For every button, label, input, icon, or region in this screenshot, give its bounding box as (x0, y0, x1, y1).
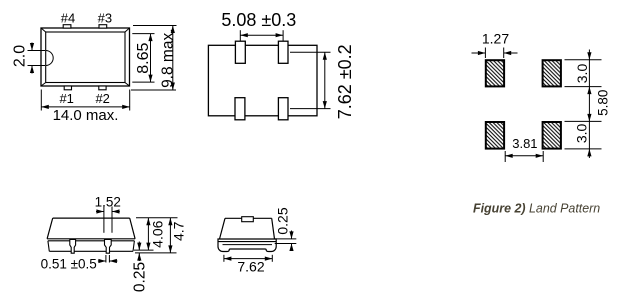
pad bottom-right (543, 122, 561, 149)
dimension 3.81 (505, 136, 543, 162)
body left slant (47, 218, 53, 239)
dimension 4.06 (134, 218, 178, 250)
svg-text:1.27: 1.27 (482, 31, 509, 47)
body lower strip (48, 241, 49, 252)
orientation notch semicircle (46, 51, 54, 66)
band inner line (223, 244, 273, 246)
svg-text:8.65: 8.65 (135, 43, 152, 74)
top tab (242, 217, 254, 222)
body right slant (272, 218, 275, 239)
svg-text:5.80: 5.80 (596, 90, 611, 116)
body top edge (53, 217, 130, 219)
corner bevel lines (41, 28, 130, 86)
svg-text:4.7: 4.7 (171, 221, 187, 241)
dimension 0.25 (stand-off) (131, 242, 148, 293)
pad top-left (486, 60, 504, 86)
dimension 7.62 (224, 255, 272, 275)
svg-text:#2: #2 (95, 91, 109, 106)
svg-text:7.62 ±0.2: 7.62 ±0.2 (335, 44, 355, 119)
body ledge double line (47, 238, 135, 240)
dimension 0.51 ±0.5 (41, 255, 118, 272)
svg-text:1.52: 1.52 (95, 194, 121, 209)
lead 1 (70, 240, 76, 254)
pad top-right (543, 60, 561, 86)
svg-text:0.25: 0.25 (275, 207, 291, 234)
pad bottom-left (486, 122, 504, 149)
package body inner outline (46, 32, 125, 83)
package body outer outline (41, 28, 130, 86)
svg-text:0.51 ±0.5: 0.51 ±0.5 (41, 257, 97, 272)
svg-text:5.08 ±0.3: 5.08 ±0.3 (221, 10, 296, 30)
pin #3 pad (99, 25, 107, 28)
svg-text:#3: #3 (98, 10, 112, 25)
pin #4 pad (63, 25, 71, 28)
pin 4 bottom (278, 98, 288, 120)
dimension 0.25 (lead thickness) (275, 207, 297, 251)
dimension 1.27 (472, 31, 518, 59)
lead 2 (105, 240, 112, 254)
pin #1 pad (64, 86, 71, 90)
dimension 5.08 ±0.3 (221, 10, 296, 41)
body top edge (225, 217, 272, 219)
svg-text:9.8 max.: 9.8 max. (160, 28, 177, 87)
dimension 2.0 (notch) (12, 43, 46, 74)
svg-text:Figure 2) Land Pattern: Figure 2) Land Pattern (473, 202, 600, 216)
svg-text:#4: #4 (61, 10, 75, 25)
dimension chain 3.0 / 5.80 / 3.0 (565, 50, 611, 159)
dimension 9.8 max. (131, 26, 177, 91)
pin 1 top (235, 41, 245, 63)
pin 2 top (278, 41, 288, 63)
pin 3 bottom (235, 98, 245, 120)
svg-text:3.81: 3.81 (512, 136, 537, 151)
dimension 14.0 max. (41, 90, 129, 125)
svg-text:3.0: 3.0 (574, 64, 590, 84)
pin #2 pad (99, 86, 106, 90)
metal base band (218, 239, 276, 252)
dimension 8.65 (132, 34, 154, 83)
svg-text:0.25: 0.25 (131, 262, 148, 292)
body left slant (220, 218, 226, 239)
band inner top line (218, 241, 276, 243)
package outline rectangle (208, 45, 317, 116)
seating plane line (135, 252, 177, 254)
svg-text:14.0 max.: 14.0 max. (53, 107, 119, 124)
svg-text:3.0: 3.0 (574, 123, 590, 143)
svg-text:4.06: 4.06 (149, 220, 165, 247)
dimension 4.7 (168, 218, 186, 253)
svg-text:#1: #1 (59, 91, 73, 106)
dimension 1.52 (95, 194, 121, 233)
svg-text:2.0: 2.0 (12, 45, 29, 67)
dimension 7.62 ±0.2 (290, 44, 355, 119)
body right slant (130, 218, 135, 239)
svg-text:7.62: 7.62 (237, 259, 264, 275)
